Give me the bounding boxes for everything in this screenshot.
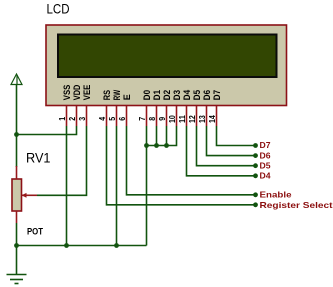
svg-text:RV1: RV1 <box>26 150 51 166</box>
svg-text:8: 8 <box>147 117 157 121</box>
svg-text:7: 7 <box>137 117 147 121</box>
svg-text:10: 10 <box>167 115 177 123</box>
wire VEE to pot wiper <box>37 126 87 195</box>
terminal dot D5 <box>253 163 258 168</box>
svg-text:D6: D6 <box>202 90 212 100</box>
wire D6 to label <box>207 126 256 156</box>
pin 2 <box>67 106 77 126</box>
svg-text:D7: D7 <box>260 141 272 150</box>
pin 3 <box>77 106 87 126</box>
svg-text:D2: D2 <box>162 90 172 100</box>
potentiometer RV1 label <box>26 150 51 166</box>
svg-text:VEE: VEE <box>82 85 92 101</box>
svg-text:4: 4 <box>97 117 107 121</box>
terminal dot Enable <box>253 192 258 197</box>
svg-text:3: 3 <box>77 117 87 121</box>
net label D4 <box>260 172 272 181</box>
terminal dot D6 <box>253 153 258 158</box>
pin 10 <box>167 106 177 126</box>
wire D4 to label <box>187 126 256 176</box>
pin 5 <box>107 106 117 126</box>
pin label RW <box>112 90 122 101</box>
svg-text:D7: D7 <box>212 90 222 100</box>
terminal dot D4 <box>253 173 258 178</box>
net label D7 <box>260 141 272 150</box>
svg-text:5: 5 <box>107 117 117 121</box>
svg-text:D1: D1 <box>152 90 162 100</box>
pin label VEE <box>82 85 92 101</box>
junction ground/pot <box>14 243 19 248</box>
wire VDD to VCC rail <box>17 126 77 135</box>
terminal dot D7 <box>253 143 258 148</box>
svg-text:Register Select: Register Select <box>260 200 333 210</box>
pin label D1 <box>152 90 162 100</box>
pin label D0 <box>142 90 152 100</box>
junction ground/RW <box>114 243 119 248</box>
pin label D2 <box>162 90 172 100</box>
pin 14 <box>207 106 217 126</box>
svg-text:D4: D4 <box>260 172 272 181</box>
pin label D3 <box>172 90 182 100</box>
wire D2 drop <box>166 126 168 146</box>
pin 7 <box>137 106 147 126</box>
svg-text:11: 11 <box>177 115 187 123</box>
pin label RS <box>102 90 112 100</box>
wire D0 to ground rail <box>146 126 148 246</box>
svg-text:D5: D5 <box>192 90 202 100</box>
pin 13 <box>197 106 207 126</box>
pin label D7 <box>212 90 222 100</box>
wire ground drop <box>16 246 18 275</box>
pin label D6 <box>202 90 212 100</box>
svg-text:D3: D3 <box>172 90 182 100</box>
wire RS to Register Select <box>107 126 256 205</box>
pin label VDD <box>72 84 82 100</box>
potentiometer RV1 body <box>12 179 22 211</box>
svg-text:13: 13 <box>197 115 207 123</box>
wire D7 to label <box>217 126 256 146</box>
svg-text:2: 2 <box>67 117 77 121</box>
svg-text:1: 1 <box>57 117 67 121</box>
pin 8 <box>147 106 157 126</box>
power symbol VCC <box>11 74 22 85</box>
pin 9 <box>157 106 167 126</box>
wire D5 to label <box>197 126 256 166</box>
ground rail wire <box>17 245 147 247</box>
pin 12 <box>187 106 197 126</box>
potentiometer RV1 top pin <box>16 166 18 179</box>
wire VCC vertical to pot <box>16 85 18 167</box>
svg-text:14: 14 <box>207 115 217 123</box>
svg-text:6: 6 <box>117 117 127 121</box>
pin 11 <box>177 106 187 126</box>
svg-text:VSS: VSS <box>62 85 72 101</box>
svg-text:VDD: VDD <box>72 84 82 100</box>
net label Register Select <box>260 200 333 210</box>
wire pot bottom to ground rail <box>16 223 18 246</box>
LCD screen <box>58 35 277 78</box>
junction D1 tie <box>154 143 159 148</box>
svg-text:LCD: LCD <box>47 0 70 16</box>
pin label D4 <box>182 90 192 100</box>
wire VSS to ground rail <box>66 126 68 246</box>
net label D5 <box>260 161 272 170</box>
svg-text:Enable: Enable <box>260 190 292 200</box>
svg-text:D0: D0 <box>142 90 152 100</box>
svg-text:D4: D4 <box>182 90 192 100</box>
potentiometer RV1 bottom pin <box>16 211 18 223</box>
junction D0 tie <box>144 143 149 148</box>
svg-text:D6: D6 <box>260 151 272 160</box>
ground <box>7 275 27 284</box>
LCD module title <box>47 0 70 16</box>
pin label D5 <box>192 90 202 100</box>
wire RW to ground rail <box>116 126 118 246</box>
net label D6 <box>260 151 272 160</box>
pin label VSS <box>62 85 72 101</box>
pin 6 <box>117 106 127 126</box>
junction ground/VSS <box>64 243 69 248</box>
svg-text:D5: D5 <box>260 161 272 170</box>
pin 4 <box>97 106 107 126</box>
net label Enable <box>260 190 292 200</box>
LCD module body <box>46 25 287 106</box>
svg-text:POT: POT <box>27 226 43 236</box>
svg-text:E: E <box>122 94 132 100</box>
junction D2 tie <box>164 143 169 148</box>
potentiometer value POT <box>27 226 43 236</box>
wire D1 drop <box>156 126 158 146</box>
svg-text:RS: RS <box>102 90 112 100</box>
svg-text:RW: RW <box>112 90 122 101</box>
pin label E <box>122 94 132 100</box>
svg-text:12: 12 <box>187 115 197 123</box>
pin 1 <box>57 106 67 126</box>
wire E to Enable <box>127 126 256 195</box>
svg-text:9: 9 <box>157 117 167 121</box>
wire D3 tie to D0 <box>147 126 177 146</box>
potentiometer RV1 wiper arrow <box>22 193 38 198</box>
junction VCC/VDD <box>14 132 19 137</box>
terminal dot Register Select <box>253 202 258 207</box>
